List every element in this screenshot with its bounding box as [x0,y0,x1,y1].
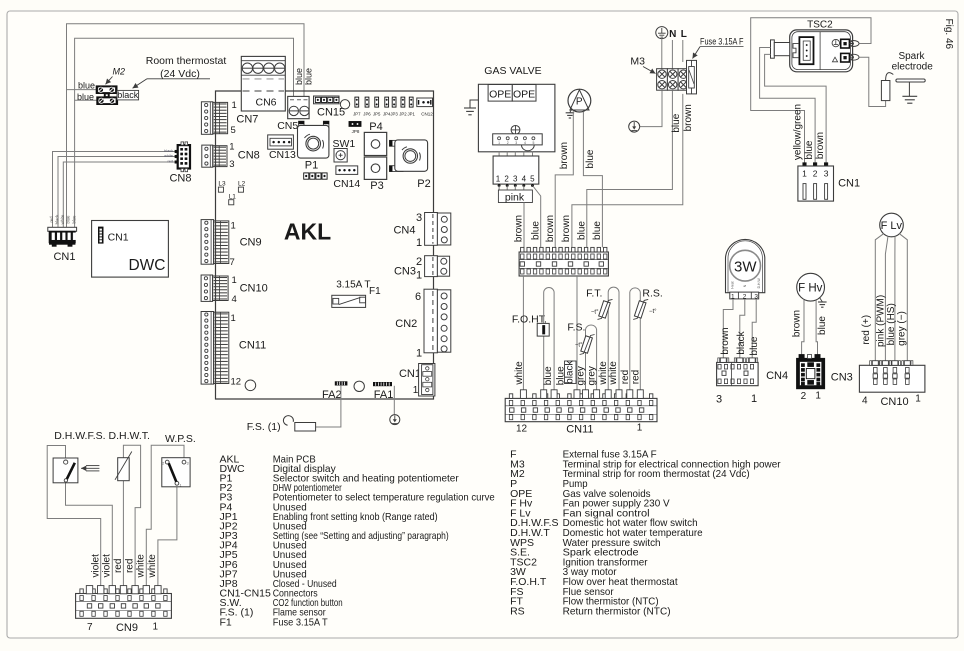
return thermistor symbol [634,301,646,318]
display unit DWC box [92,221,169,278]
svg-text:Heat: Heat [731,281,735,288]
svg-text:CN13: CN13 [269,149,296,161]
svg-text:W.P.S.: W.P.S. [165,433,196,445]
svg-text:1: 1 [180,484,182,488]
svg-text:P4: P4 [369,121,382,133]
svg-text:brown: brown [720,327,731,354]
wire blue F Lv to CN10 [894,236,896,361]
F Hv ground symbol [820,298,823,302]
TSC2 HT terminal bottom [841,53,850,62]
svg-text:white: white [60,214,65,224]
chassis earth point symbol [629,121,640,132]
svg-text:F Hv: F Hv [798,283,823,295]
return thermistor loop wires red [630,288,641,394]
svg-text:1: 1 [229,142,234,153]
svg-text:3: 3 [513,174,518,183]
svg-text:3: 3 [515,141,517,145]
connector under P1 [304,173,309,179]
svg-text:white: white [608,361,619,386]
svg-text:FA1: FA1 [374,389,394,401]
svg-text:blue: blue [804,140,815,159]
svg-text:N: N [669,29,676,40]
fuse holder 3.15A [687,60,697,94]
svg-text:red: red [113,559,124,573]
svg-text:5: 5 [530,174,535,183]
svg-text:1: 1 [416,348,422,360]
svg-text:blue: blue [66,215,71,224]
wire blue F Hv to CN3 [816,300,817,356]
spark electrode plate and ground [896,79,925,82]
svg-text:black: black [736,330,747,354]
connector CN14 [336,166,358,175]
wire red F Lv to CN10 [875,234,883,361]
connector plug CN8 external [178,145,190,168]
svg-text:CN3: CN3 [394,266,416,278]
svg-text:F.S.: F.S. [567,322,585,334]
svg-text:blue: blue [592,221,603,240]
terminal strip M3 [657,69,668,91]
svg-text:5: 5 [532,141,534,145]
svg-text:1: 1 [416,270,422,282]
svg-text:red: red [620,370,631,384]
svg-text:CN10: CN10 [240,283,268,295]
DHW temperature NTC symbol [118,458,130,481]
wire FA2 to flame sensor [316,385,341,427]
overheat thermostat loop wires blue [544,288,554,394]
wire brown pump to loom connector [555,111,573,247]
svg-text:P: P [576,96,583,107]
connector plug CN1 display [48,227,77,231]
TSC2 HT terminal top [841,39,850,48]
connector CN15 [314,96,340,104]
svg-text:1: 1 [231,313,236,324]
svg-text:blue: blue [817,316,828,335]
svg-text:white: white [147,554,158,579]
connector CN5 screw terminal [288,96,309,118]
wire blue gas valve pin5 to loom connector [533,186,541,248]
svg-text:1: 1 [498,141,500,145]
svg-text:2: 2 [416,256,422,268]
svg-text:white: white [164,154,173,158]
wire blue M2 row2 to CN5 screw1 [75,38,294,100]
gas valve connector strip [493,134,543,145]
svg-text:pink: pink [505,192,525,204]
wire blue N to loom connector [587,90,673,247]
svg-text:F.S. (1): F.S. (1) [247,421,281,433]
wire blue plug to CN1 pin2 [760,48,816,164]
svg-text:electrode: electrode [892,62,934,73]
gas valve 5 pin plug [498,152,500,156]
mounting hole between FA2 FA1 [354,381,364,391]
wire pink F Lv to CN10 [885,236,888,361]
wire brown plug to CN1 pin3 [765,54,827,163]
wire TSC2 to spark electrode [860,57,886,106]
svg-text:CN12: CN12 [421,111,433,116]
svg-text:blue: blue [294,68,304,85]
terminal strip M2 row 2 [97,97,118,105]
svg-text:violet: violet [102,554,113,578]
wire black to CN8 plug [58,157,176,228]
flow direction symbol [86,465,99,467]
svg-text:AKL: AKL [284,219,331,245]
wire black 3W to CN4 [740,299,745,358]
svg-text:CN11: CN11 [239,340,266,352]
potentiometer P3 [364,157,386,179]
connector CN4 external [717,362,759,385]
leader arrow room thermostat [147,78,210,80]
wire red to CN8 plug [53,152,176,228]
svg-text:TSC2: TSC2 [807,20,833,31]
water pressure switch box [162,458,190,487]
wire brown F Hv to CN3 [802,300,804,356]
svg-text:1: 1 [915,394,921,405]
gas valve connector notch [522,145,535,151]
TSC2 warning triangle [832,57,837,62]
svg-text:red (+): red (+) [861,315,872,345]
svg-text:R.S.: R.S. [642,288,662,300]
3 way motor 3W body [726,239,765,292]
svg-text:CN4: CN4 [766,370,788,382]
svg-text:L3: L3 [218,181,226,188]
svg-text:P3: P3 [370,180,383,192]
pink wire bundle [499,186,524,191]
ignition transformer TSC2 body [790,30,853,72]
svg-text:3W: 3W [734,259,757,276]
svg-text:12: 12 [516,424,528,435]
svg-text:CN11: CN11 [566,424,593,436]
connector CN12 [417,98,433,107]
svg-text:1: 1 [815,391,821,402]
svg-text:JP1: JP1 [407,111,415,116]
svg-text:red: red [124,559,135,573]
connector CN11 loom [505,398,657,421]
svg-text:DWC: DWC [128,257,165,274]
wire white WPS to CN9 [146,445,184,587]
svg-text:CN14: CN14 [333,178,360,190]
svg-text:blue: blue [78,81,95,91]
wire white2 WPS to CN9 [158,485,177,587]
flow thermistor symbol [599,301,611,318]
svg-text:JP5: JP5 [373,111,381,116]
svg-text:Spark: Spark [898,51,925,62]
svg-text:CN8: CN8 [169,173,191,185]
svg-text:blue: blue [304,68,314,85]
connector CN10 external [859,365,925,392]
jumper JP8 closed [349,122,361,127]
svg-text:4: 4 [232,294,237,305]
svg-text:P2: P2 [417,178,430,190]
svg-text:L2: L2 [238,181,246,188]
svg-text:1: 1 [802,169,807,179]
svg-text:−t°: −t° [649,309,657,315]
connector CN11 pcb edge [201,312,214,385]
wire red DHWT to CN9 [122,481,124,587]
fan signal control F Lv circle [880,213,904,237]
svg-text:1: 1 [751,393,757,405]
svg-text:2: 2 [801,391,807,402]
wire white loom to CN11 [522,276,524,394]
wire violet2 DHWFS to CN9 [66,483,113,587]
svg-text:blue: blue [749,336,760,355]
wire blue 3W to CN4 [752,299,756,358]
connector CN6 terminal [241,56,285,111]
svg-text:CN3: CN3 [831,372,853,384]
svg-text:−t°: −t° [591,310,599,316]
earth screw on gas valve [511,125,520,134]
svg-text:grey (−): grey (−) [897,311,908,346]
svg-text:JP8: JP8 [352,129,360,134]
TSC2 earth icon [832,39,839,46]
svg-text:D.H.W.T.: D.H.W.T. [108,430,149,442]
svg-text:Fuse 3.15A T: Fuse 3.15A T [273,616,329,628]
main PCB AKL outline [216,91,434,399]
svg-text:CN1: CN1 [838,178,860,190]
svg-text:brown: brown [683,104,694,131]
svg-text:white: white [135,554,146,579]
earth point symbol below FA1 [390,415,400,425]
svg-text:blue: blue [72,215,77,224]
connector CN10 pcb edge [201,275,213,301]
svg-text:FA2: FA2 [322,389,342,401]
svg-text:2: 2 [504,174,509,183]
flow switch D.H.W.F.S. box [53,458,78,483]
svg-text:1: 1 [231,221,236,232]
flow thermistor loop wires white [608,287,619,394]
svg-text:2: 2 [507,141,509,145]
svg-text:P1: P1 [305,159,318,171]
wire brown gas valve to loom connector [523,203,525,248]
3W inner circle [730,250,761,281]
pump P circle [568,89,591,112]
svg-text:D.H.W.: D.H.W. [757,278,761,289]
svg-text:D.H.W.F.S.: D.H.W.F.S. [54,430,105,442]
svg-text:7: 7 [230,257,235,268]
svg-text:brown: brown [791,310,802,337]
svg-text:1: 1 [232,100,237,111]
svg-text:brown: brown [561,215,572,242]
wire black loom to CN11 [576,276,578,394]
svg-text:4: 4 [522,174,527,183]
pump ground symbol [570,109,572,112]
wire N into M3 [671,40,673,69]
svg-text:JP2: JP2 [399,111,407,116]
svg-text:blue: blue [585,149,596,168]
svg-text:M2: M2 [113,67,126,77]
svg-text:CN9: CN9 [116,622,138,634]
svg-text:CN15: CN15 [317,107,345,119]
TSC2 spade lug bottom [849,54,859,60]
svg-text:blue: blue [530,221,541,240]
svg-text:CN1: CN1 [108,231,129,243]
svg-text:1: 1 [413,385,419,396]
wire violet DHWFS to CN9 [47,446,100,587]
svg-text:1: 1 [232,275,237,286]
svg-text:RS: RS [510,605,525,617]
svg-text:brown: brown [513,215,524,242]
svg-text:L: L [681,29,687,40]
svg-text:brown: brown [815,132,826,159]
connector CN13 [268,135,294,149]
svg-text:F1: F1 [369,286,381,297]
svg-text:red: red [630,370,641,384]
svg-text:GAS VALVE: GAS VALVE [484,65,541,77]
connector CN9 external [76,594,172,619]
svg-text:1: 1 [153,622,159,633]
wire brown 3W to CN4 [723,299,733,358]
svg-text:CN1: CN1 [399,368,421,380]
fuse link FA2 [335,382,347,385]
CN11 wire pin tabs [520,390,526,399]
wire M3 earth to chassis earth [640,90,662,126]
fuse link FA1 [373,382,391,385]
label black wire with box [565,361,577,384]
svg-text:blue (HS): blue (HS) [886,303,897,345]
svg-text:blue: blue [555,366,566,385]
svg-text:1: 1 [637,423,643,434]
svg-text:JP3: JP3 [390,111,398,116]
svg-text:CN6: CN6 [255,97,276,109]
svg-text:blue: blue [543,366,554,385]
svg-text:5: 5 [231,125,236,136]
svg-text:blue: blue [576,221,587,240]
svg-text:F Lv: F Lv [881,220,903,232]
svg-text:black: black [164,149,173,153]
ground symbol gas valve [470,100,478,108]
svg-text:CN2: CN2 [395,318,417,330]
svg-text:OPE: OPE [489,89,511,101]
svg-text:CN4: CN4 [393,225,415,237]
svg-text:2: 2 [162,461,164,465]
gas valve solenoid OPE 2 [512,85,536,102]
connector CN1 ignition [803,163,807,166]
svg-text:1: 1 [416,237,422,249]
terminal strip M2 row 1 [96,86,117,94]
svg-text:JP6: JP6 [363,111,371,116]
wire blue M2 row1 to CN5 screw2 [67,24,305,97]
overheat thermostat symbol [537,323,549,336]
wire brown L fused to loom connector [572,94,683,248]
svg-text:3: 3 [716,394,722,406]
svg-text:7: 7 [87,622,93,633]
svg-text:1: 1 [496,174,501,183]
svg-text:2: 2 [813,169,818,179]
potentiometer P2 [390,140,404,146]
svg-text:6: 6 [415,291,421,303]
connector CN7 pcb edge [201,102,212,135]
svg-text:blue: blue [77,92,94,102]
connector CN3 external black [797,359,825,389]
spark electrode body [881,81,890,101]
svg-text:grey: grey [587,366,598,385]
mounting hole near CN11 [245,380,256,391]
wire white to CN8 plug [63,162,176,227]
svg-text:F.T.: F.T. [586,288,602,300]
svg-text:Terminal strip for room thermo: Terminal strip for room thermostat (24 V… [563,468,750,480]
wire blue1 down to CN1 plug [66,90,68,228]
svg-text:red: red [168,160,174,164]
svg-text:grey: grey [576,366,587,385]
svg-text:CN8: CN8 [238,150,260,162]
svg-text:(24 Vdc): (24 Vdc) [160,68,200,80]
main loom connector [519,252,608,276]
link between M2 rows [104,93,109,97]
wire earth into M3 [661,39,663,69]
svg-text:white: white [514,361,525,386]
wire grey F Lv to CN10 [899,234,907,361]
svg-text:OPE: OPE [513,89,535,101]
svg-text:4: 4 [524,141,526,145]
svg-text:−t°: −t° [575,343,583,349]
svg-text:white: white [598,361,609,386]
label black with box [117,90,139,100]
svg-text:4: 4 [862,396,868,407]
wire blue2 down to CN1 plug [74,100,76,227]
flue sensor thermistor symbol [581,336,593,353]
gas valve solenoid OPE 1 [488,85,512,102]
wire FA1 to earth point [393,386,395,415]
svg-text:yellow/green: yellow/green [793,104,804,160]
svg-text:12: 12 [231,377,242,388]
svg-text:Fuse 3.15A F: Fuse 3.15A F [700,37,744,48]
flue sensor loop wires grey [586,325,597,394]
svg-text:Fig. 46: Fig. 46 [943,19,954,50]
connector CN1 inside DWC [99,227,104,243]
TSC2 spade lug top [849,41,859,47]
svg-text:3.15A T: 3.15A T [336,280,370,291]
earth terminal symbol top [656,27,668,39]
svg-text:3: 3 [416,212,422,224]
svg-text:brown: brown [545,215,556,242]
wire red2 DHWT to CN9 [123,445,140,587]
svg-text:3: 3 [229,159,234,170]
svg-text:CN5: CN5 [277,120,298,132]
potentiometer P1 [299,121,304,140]
svg-text:3: 3 [824,169,829,179]
svg-text:3: 3 [187,461,189,465]
svg-text:brown: brown [559,142,570,169]
leader arrow M2 [106,77,113,85]
svg-text:red: red [49,216,54,223]
svg-text:F1: F1 [220,616,232,628]
svg-text:CN1: CN1 [53,251,75,263]
wire TSC2 earth loop to CN1 pin1 [751,18,871,164]
svg-text:CN9: CN9 [240,237,262,249]
svg-text:JP7: JP7 [353,111,361,116]
jumpers JP7-JP1 [355,97,359,107]
svg-text:black: black [55,214,60,225]
svg-text:M3: M3 [630,56,645,68]
TSC2 input connector inner [799,37,813,64]
3W terminal box [730,292,759,299]
TSC2 input plug [771,40,775,58]
svg-text:violet: violet [91,554,102,578]
svg-text:Return thermistor (NTC): Return thermistor (NTC) [563,605,671,617]
PCB top edge dashed inside CN6 [241,90,285,92]
wire L into fuse [682,40,684,62]
CN9 wire pin tabs [86,586,92,594]
connector CN9 pcb edge [201,220,214,265]
svg-text:CN10: CN10 [880,396,908,408]
svg-text:black: black [117,90,139,100]
svg-text:Room thermostat: Room thermostat [146,55,227,67]
svg-text:CN7: CN7 [236,114,258,126]
mounting hole near CN15 [340,100,349,109]
svg-text:blue: blue [671,113,682,132]
fan power supply F Hv circle [797,273,825,301]
wire blue pump to loom connector [583,112,602,248]
leader arrow M3 [643,67,656,74]
connector CN8 pcb edge [202,145,213,167]
